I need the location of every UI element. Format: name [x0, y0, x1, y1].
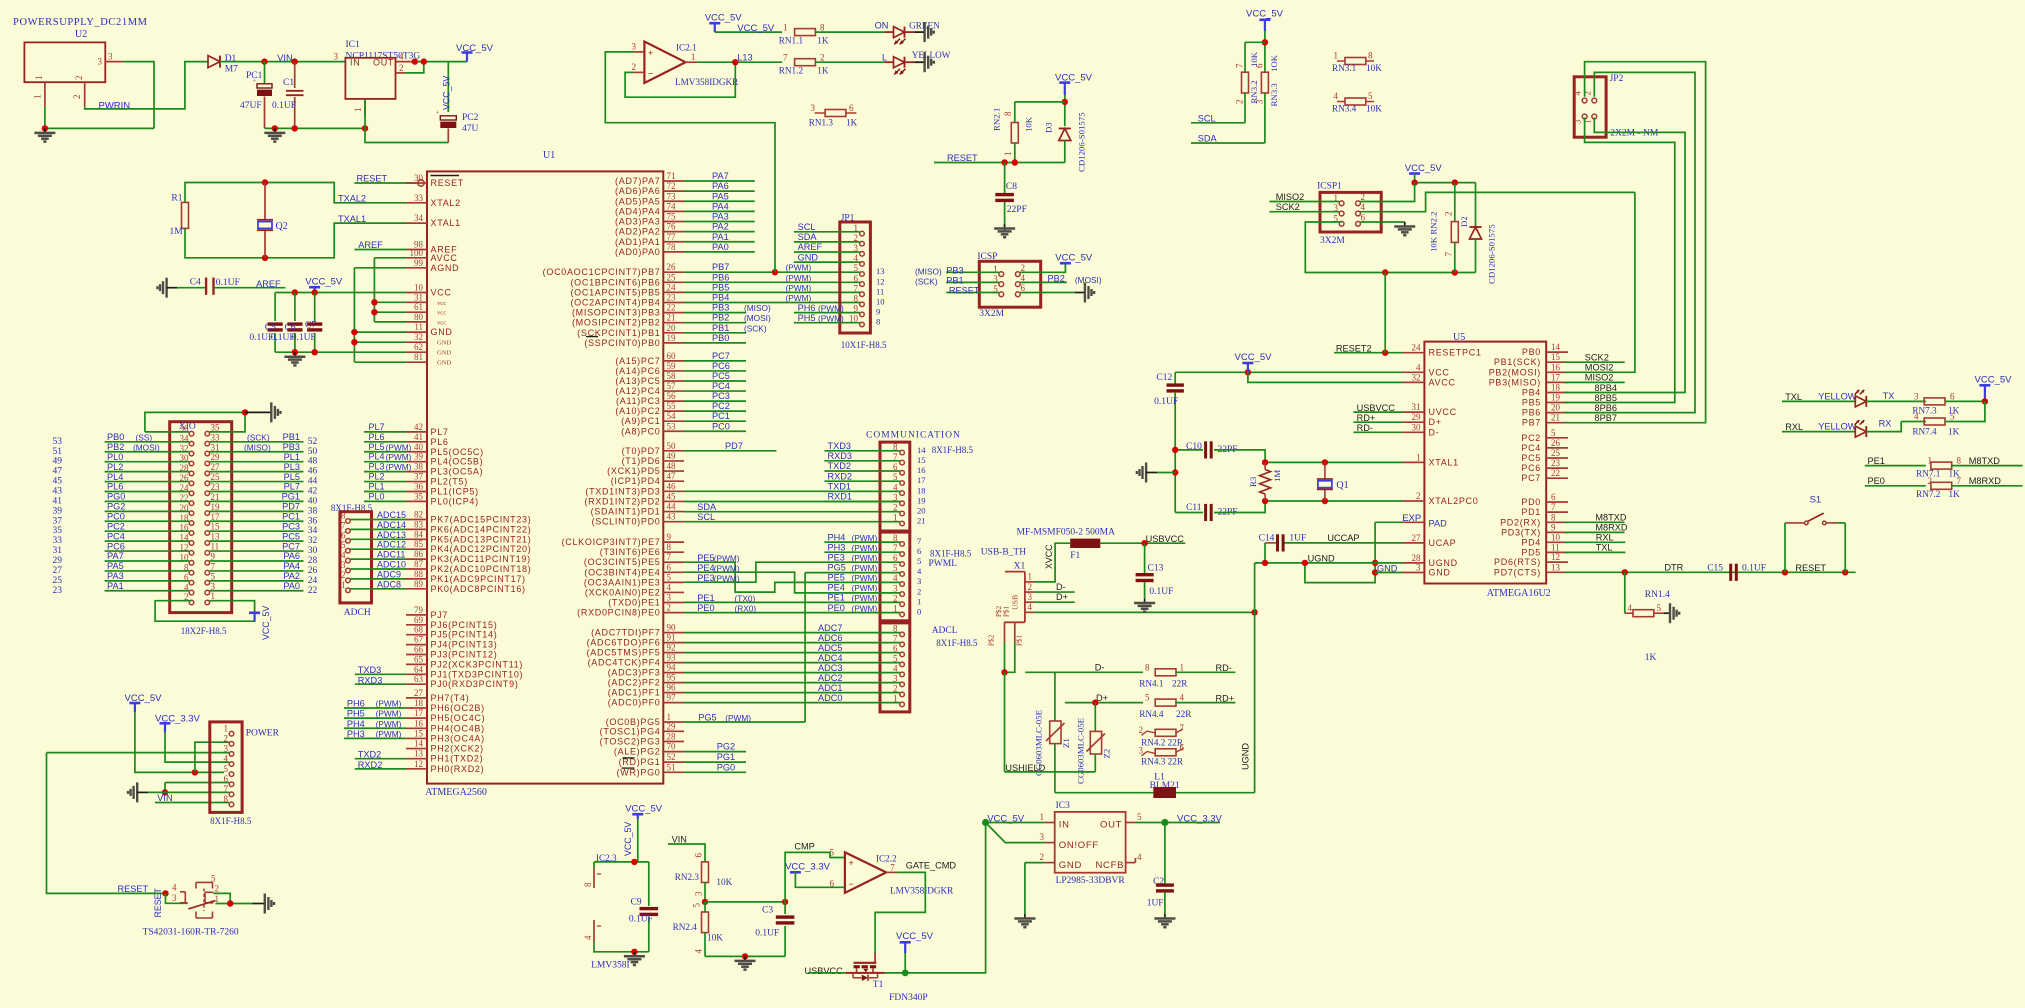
- svg-text:PC5: PC5: [1521, 453, 1541, 463]
- svg-text:UCCAP: UCCAP: [1327, 533, 1359, 543]
- svg-text:VIN: VIN: [672, 835, 687, 845]
- svg-text:RESET: RESET: [431, 178, 465, 188]
- svg-text:(XCK1)PD5: (XCK1)PD5: [607, 466, 660, 476]
- svg-text:7: 7: [917, 536, 922, 546]
- svg-text:UVCC: UVCC: [1429, 407, 1457, 417]
- svg-text:(WR)PG0: (WR)PG0: [617, 767, 661, 777]
- svg-text:(AD3)PA3: (AD3)PA3: [615, 217, 660, 227]
- svg-text:NCFB: NCFB: [1096, 860, 1125, 871]
- svg-text:PA7: PA7: [712, 171, 729, 181]
- svg-text:14: 14: [1551, 342, 1561, 352]
- svg-text:19: 19: [211, 502, 221, 512]
- svg-text:PE0: PE0: [697, 603, 714, 613]
- svg-text:12: 12: [876, 276, 885, 286]
- svg-text:C15: C15: [1707, 564, 1723, 574]
- svg-text:ADC13: ADC13: [377, 530, 406, 540]
- svg-text:(MOSI): (MOSI): [744, 313, 771, 323]
- svg-text:(A14)PC6: (A14)PC6: [615, 366, 660, 376]
- svg-text:OUT: OUT: [1100, 820, 1122, 831]
- svg-text:VCC_5V: VCC_5V: [305, 277, 343, 288]
- svg-text:10K: 10K: [707, 933, 723, 943]
- svg-text:11: 11: [211, 542, 220, 552]
- svg-text:PG5: PG5: [828, 562, 846, 572]
- svg-text:17: 17: [414, 708, 424, 718]
- svg-text:RD+: RD+: [1216, 693, 1235, 703]
- svg-text:13: 13: [1551, 562, 1561, 572]
- svg-text:PC1: PC1: [282, 511, 300, 521]
- svg-text:57: 57: [667, 381, 677, 391]
- svg-text:PJ6(PCINT15): PJ6(PCINT15): [431, 620, 498, 630]
- svg-text:PC2: PC2: [107, 521, 125, 531]
- svg-text:1UF: 1UF: [1147, 899, 1164, 909]
- svg-text:UGND: UGND: [1241, 743, 1251, 770]
- svg-text:5: 5: [893, 563, 898, 573]
- svg-text:PB2: PB2: [1048, 274, 1065, 284]
- svg-text:PG5: PG5: [698, 712, 716, 722]
- svg-text:66: 66: [414, 645, 424, 655]
- svg-text:11: 11: [1551, 542, 1560, 552]
- svg-text:R3: R3: [1248, 476, 1258, 487]
- svg-text:GND: GND: [1377, 564, 1398, 574]
- svg-text:PC3: PC3: [282, 521, 300, 531]
- svg-text:(RXD0PCIN8)PE0: (RXD0PCIN8)PE0: [577, 608, 660, 618]
- svg-text:MISO2: MISO2: [1276, 192, 1305, 202]
- svg-text:PL4: PL4: [369, 452, 385, 462]
- svg-text:23: 23: [53, 586, 63, 596]
- svg-text:10: 10: [1551, 532, 1561, 542]
- svg-text:12: 12: [1551, 552, 1560, 562]
- svg-text:(ADC0)PF0: (ADC0)PF0: [608, 698, 661, 708]
- svg-text:IC3: IC3: [1056, 801, 1071, 811]
- svg-text:D+: D+: [1056, 592, 1068, 602]
- svg-text:35: 35: [211, 422, 221, 432]
- svg-text:PD7(CTS): PD7(CTS): [1494, 567, 1541, 577]
- svg-text:70: 70: [667, 742, 677, 752]
- svg-text:PC1: PC1: [712, 411, 730, 421]
- svg-text:77: 77: [667, 232, 677, 242]
- svg-text:AREF: AREF: [256, 279, 281, 289]
- svg-text:PB6: PB6: [1522, 408, 1541, 418]
- svg-text:3: 3: [1028, 592, 1033, 602]
- svg-text:10K RN2.2: 10K RN2.2: [1429, 211, 1439, 252]
- svg-text:16: 16: [414, 718, 424, 728]
- svg-text:25: 25: [53, 576, 63, 586]
- svg-text:PC7: PC7: [1521, 473, 1541, 483]
- svg-text:XTAL2: XTAL2: [431, 198, 461, 208]
- svg-text:83: 83: [414, 519, 424, 529]
- svg-text:6: 6: [917, 546, 922, 556]
- svg-text:RXD1: RXD1: [828, 492, 853, 502]
- svg-text:C12: C12: [1156, 373, 1172, 383]
- svg-text:34: 34: [308, 526, 318, 536]
- svg-text:1K: 1K: [1948, 427, 1960, 437]
- svg-text:PL3: PL3: [284, 462, 300, 472]
- svg-text:JP2: JP2: [1610, 74, 1624, 84]
- svg-text:35: 35: [53, 526, 63, 536]
- svg-text:1K: 1K: [1949, 489, 1961, 499]
- svg-text:YELLOW: YELLOW: [1818, 391, 1857, 401]
- svg-text:D-: D-: [1056, 582, 1066, 592]
- svg-text:PB1(SCK): PB1(SCK): [1494, 357, 1541, 367]
- svg-text:+: +: [849, 858, 854, 868]
- svg-text:90: 90: [667, 623, 677, 633]
- svg-text:VCC_3.3V: VCC_3.3V: [785, 862, 831, 873]
- svg-text:SCL: SCL: [1198, 114, 1216, 124]
- svg-text:LP2985-33DBVR: LP2985-33DBVR: [1056, 876, 1126, 886]
- svg-text:PA7: PA7: [107, 551, 124, 561]
- svg-text:4: 4: [694, 949, 704, 954]
- svg-text:AVCC: AVCC: [1429, 377, 1456, 387]
- svg-text:YELLOW: YELLOW: [1818, 422, 1857, 432]
- svg-text:RD-: RD-: [1216, 663, 1232, 673]
- svg-text:PB0: PB0: [107, 432, 124, 442]
- svg-text:S1: S1: [1810, 495, 1822, 506]
- svg-text:TXL: TXL: [1785, 392, 1802, 402]
- svg-text:22: 22: [1551, 468, 1560, 478]
- svg-text:XTAL1: XTAL1: [431, 218, 461, 228]
- svg-text:PE1: PE1: [1868, 456, 1885, 466]
- svg-text:2: 2: [224, 734, 229, 744]
- svg-text:24: 24: [1412, 343, 1422, 353]
- svg-text:vcc: vcc: [437, 319, 446, 326]
- svg-text:32: 32: [308, 536, 318, 546]
- svg-text:VCC_3.3V: VCC_3.3V: [1177, 814, 1223, 825]
- svg-text:TX: TX: [1883, 391, 1895, 401]
- svg-text:3: 3: [224, 744, 229, 754]
- svg-text:GND: GND: [437, 350, 452, 357]
- svg-text:PL5(OC5C): PL5(OC5C): [431, 447, 484, 457]
- svg-text:(ADC7TDI)PF7: (ADC7TDI)PF7: [591, 628, 660, 638]
- svg-text:(TOSC1)PG4: (TOSC1)PG4: [600, 726, 661, 736]
- svg-text:(A9)PC1: (A9)PC1: [621, 416, 660, 426]
- svg-text:PC4: PC4: [1521, 443, 1541, 453]
- svg-text:UCAP: UCAP: [1429, 538, 1457, 548]
- svg-text:8: 8: [854, 294, 859, 304]
- svg-text:91: 91: [667, 633, 676, 643]
- svg-text:PC7: PC7: [282, 541, 300, 551]
- svg-text:PA2: PA2: [283, 571, 300, 581]
- svg-text:60: 60: [667, 351, 677, 361]
- svg-text:RXD3: RXD3: [358, 675, 383, 685]
- svg-text:1: 1: [341, 580, 346, 590]
- svg-text:64: 64: [414, 664, 424, 674]
- svg-text:1: 1: [34, 76, 44, 81]
- svg-text:PJ5(PCINT14): PJ5(PCINT14): [431, 630, 498, 640]
- svg-text:+: +: [436, 111, 440, 117]
- svg-text:(AD2)PA2: (AD2)PA2: [615, 227, 660, 237]
- svg-text:85: 85: [414, 539, 424, 549]
- svg-text:17: 17: [211, 512, 221, 522]
- svg-text:17: 17: [917, 475, 926, 485]
- svg-text:18X2F-H8.5: 18X2F-H8.5: [181, 626, 227, 636]
- svg-text:25: 25: [667, 272, 677, 282]
- svg-text:(RX0): (RX0): [735, 604, 757, 614]
- svg-text:vcc: vcc: [437, 310, 446, 317]
- svg-text:2: 2: [1028, 582, 1033, 592]
- svg-text:PJ2(XCK3PCINT11): PJ2(XCK3PCINT11): [431, 659, 524, 669]
- svg-text:52: 52: [667, 752, 676, 762]
- svg-text:C9: C9: [631, 898, 642, 908]
- svg-text:D-: D-: [1095, 663, 1105, 673]
- svg-text:VCC_5V: VCC_5V: [261, 606, 271, 640]
- svg-text:8X1F-H8.5: 8X1F-H8.5: [936, 638, 978, 648]
- svg-text:(ADC3)PF3: (ADC3)PF3: [608, 668, 661, 678]
- svg-text:(MISO): (MISO): [244, 442, 271, 452]
- svg-text:(A8)PC0: (A8)PC0: [621, 426, 660, 436]
- svg-text:(PWM): (PWM): [376, 699, 402, 709]
- svg-text:ADC7: ADC7: [818, 623, 843, 633]
- svg-text:4: 4: [1028, 602, 1033, 612]
- svg-text:RN3.4: RN3.4: [1332, 104, 1357, 114]
- svg-text:1: 1: [893, 513, 898, 523]
- svg-text:D+: D+: [1429, 417, 1442, 427]
- svg-text:1: 1: [33, 95, 43, 100]
- svg-text:41: 41: [414, 432, 423, 442]
- svg-text:2: 2: [1416, 491, 1421, 501]
- svg-text:2: 2: [341, 570, 346, 580]
- svg-text:(PWM): (PWM): [386, 452, 412, 462]
- svg-text:0.1UF: 0.1UF: [755, 929, 779, 939]
- svg-text:7: 7: [1551, 502, 1556, 512]
- svg-text:13: 13: [211, 532, 221, 542]
- svg-text:1: 1: [224, 723, 229, 733]
- svg-text:5: 5: [341, 540, 346, 550]
- svg-text:1UF: 1UF: [1289, 533, 1306, 543]
- svg-text:PL6: PL6: [431, 437, 449, 447]
- svg-text:4: 4: [667, 582, 672, 592]
- svg-text:PL2: PL2: [369, 472, 385, 482]
- svg-text:6: 6: [667, 562, 672, 572]
- svg-text:P$1: P$1: [1016, 634, 1024, 646]
- svg-text:(T3INT6)PE6: (T3INT6)PE6: [600, 547, 661, 557]
- svg-text:PL2(T5): PL2(T5): [431, 477, 468, 487]
- svg-text:PE1: PE1: [828, 593, 845, 603]
- svg-text:75: 75: [667, 212, 677, 222]
- svg-text:PD4: PD4: [1521, 537, 1541, 547]
- svg-text:40: 40: [308, 496, 318, 506]
- svg-text:55: 55: [667, 401, 677, 411]
- svg-text:1M: 1M: [170, 227, 184, 237]
- svg-text:Q1: Q1: [1336, 480, 1348, 491]
- svg-text:PC6: PC6: [712, 361, 730, 371]
- svg-text:62: 62: [414, 342, 423, 352]
- svg-text:4: 4: [172, 883, 177, 893]
- svg-text:PA0: PA0: [283, 581, 300, 591]
- svg-text:4: 4: [1628, 603, 1633, 613]
- svg-text:44: 44: [308, 477, 318, 487]
- svg-text:RN2.1: RN2.1: [992, 108, 1002, 131]
- svg-text:81: 81: [414, 352, 423, 362]
- svg-text:6: 6: [1950, 391, 1955, 401]
- svg-text:3: 3: [632, 42, 637, 52]
- svg-text:1: 1: [1180, 662, 1185, 672]
- svg-text:45: 45: [667, 491, 677, 501]
- svg-text:Z2: Z2: [1102, 749, 1112, 759]
- svg-text:−: −: [648, 69, 653, 79]
- svg-text:ICSP1: ICSP1: [1317, 182, 1342, 192]
- svg-text:PE0: PE0: [828, 603, 845, 613]
- svg-text:10X1F-H8.5: 10X1F-H8.5: [841, 340, 887, 350]
- svg-text:LMV358IDGKR: LMV358IDGKR: [890, 886, 954, 896]
- svg-text:28: 28: [1412, 553, 1422, 563]
- svg-text:C14: C14: [1259, 534, 1275, 544]
- svg-text:(A15)PC7: (A15)PC7: [615, 356, 660, 366]
- svg-text:8: 8: [341, 511, 346, 521]
- svg-text:(AD6)PA6: (AD6)PA6: [615, 186, 660, 196]
- svg-text:(ICP1)PD4: (ICP1)PD4: [611, 476, 661, 486]
- svg-text:U2: U2: [75, 29, 87, 40]
- svg-text:GATE_CMD: GATE_CMD: [906, 861, 957, 871]
- svg-text:PD6(RTS): PD6(RTS): [1494, 557, 1541, 567]
- svg-text:(SCK): (SCK): [744, 323, 767, 333]
- svg-text:4: 4: [1361, 202, 1366, 212]
- svg-text:L13: L13: [737, 53, 752, 63]
- svg-text:PWRIN: PWRIN: [99, 101, 131, 112]
- svg-text:10K: 10K: [1366, 63, 1382, 73]
- svg-text:15: 15: [211, 522, 221, 532]
- svg-text:(SDAINT1)PD1: (SDAINT1)PD1: [591, 507, 661, 517]
- svg-text:0.1UF: 0.1UF: [1154, 397, 1178, 407]
- svg-text:M8TXD: M8TXD: [1969, 456, 2001, 466]
- svg-text:29: 29: [211, 452, 221, 462]
- svg-text:(PWM): (PWM): [386, 462, 412, 472]
- svg-text:3X2M: 3X2M: [979, 309, 1004, 319]
- svg-text:82: 82: [414, 510, 423, 520]
- svg-text:R1: R1: [171, 194, 182, 204]
- svg-text:(MISO): (MISO): [915, 266, 942, 276]
- svg-text:PB7: PB7: [1522, 418, 1541, 428]
- svg-text:RN4.4: RN4.4: [1139, 709, 1164, 719]
- svg-text:3: 3: [811, 103, 816, 113]
- svg-text:61: 61: [414, 302, 423, 312]
- svg-text:ADC5: ADC5: [818, 643, 843, 653]
- svg-text:33: 33: [414, 193, 424, 203]
- svg-text:5: 5: [830, 847, 835, 857]
- svg-text:PL6: PL6: [107, 482, 123, 492]
- svg-text:RN3.1: RN3.1: [1332, 63, 1357, 73]
- svg-text:PE5: PE5: [828, 572, 845, 582]
- svg-text:POWERSUPPLY_DC21MM: POWERSUPPLY_DC21MM: [13, 17, 148, 28]
- svg-text:96: 96: [667, 683, 677, 693]
- svg-text:(T0)PD7: (T0)PD7: [622, 446, 661, 456]
- svg-text:4: 4: [917, 566, 922, 576]
- svg-text:PL1: PL1: [369, 481, 385, 491]
- svg-text:30: 30: [308, 546, 318, 556]
- svg-text:TXD3: TXD3: [828, 441, 852, 451]
- svg-text:PA5: PA5: [107, 561, 124, 571]
- svg-text:ADC1: ADC1: [818, 683, 843, 693]
- svg-text:1K: 1K: [1645, 653, 1657, 663]
- svg-text:ADC4: ADC4: [818, 653, 843, 663]
- svg-text:2: 2: [667, 603, 672, 613]
- svg-text:7: 7: [890, 863, 895, 873]
- svg-text:(A11)PC3: (A11)PC3: [616, 396, 660, 406]
- svg-text:ON!OFF: ON!OFF: [1059, 840, 1099, 851]
- svg-text:(AD0)PA0: (AD0)PA0: [615, 247, 660, 257]
- svg-text:PH6: PH6: [347, 699, 365, 709]
- svg-text:SCK2: SCK2: [1276, 202, 1300, 212]
- svg-text:PH6: PH6: [798, 303, 816, 313]
- svg-text:47: 47: [53, 467, 63, 477]
- svg-text:37: 37: [53, 516, 63, 526]
- svg-text:COMMUNICATION: COMMUNICATION: [866, 431, 961, 441]
- svg-text:(PWM): (PWM): [786, 263, 812, 273]
- svg-text:PA0: PA0: [712, 242, 729, 252]
- svg-text:PL4(OC5B): PL4(OC5B): [431, 457, 484, 467]
- svg-text:13: 13: [876, 266, 885, 276]
- svg-text:32: 32: [414, 332, 423, 342]
- svg-text:U1: U1: [543, 150, 555, 161]
- svg-text:VIN: VIN: [157, 793, 172, 803]
- svg-text:88: 88: [414, 569, 424, 579]
- svg-text:D2: D2: [1459, 216, 1469, 227]
- svg-text:9: 9: [1551, 522, 1556, 532]
- svg-text:15: 15: [917, 455, 926, 465]
- svg-text:PH5: PH5: [798, 313, 816, 323]
- svg-text:T1: T1: [873, 980, 884, 990]
- svg-text:(CLKOICP3INT7)PE7: (CLKOICP3INT7)PE7: [562, 537, 661, 547]
- svg-text:48: 48: [308, 457, 318, 467]
- svg-text:OUT: OUT: [373, 58, 394, 68]
- svg-text:PK2(ADC10PCINT18): PK2(ADC10PCINT18): [431, 564, 532, 574]
- svg-text:0.1UF: 0.1UF: [272, 101, 296, 111]
- svg-text:PB7: PB7: [712, 262, 729, 272]
- svg-text:(SSPCINT0)PB0: (SSPCINT0)PB0: [584, 338, 660, 348]
- svg-text:(OC2APCINT4)PB4: (OC2APCINT4)PB4: [570, 298, 660, 308]
- svg-text:47U: 47U: [462, 124, 479, 134]
- svg-text:1: 1: [783, 23, 788, 33]
- svg-text:MISO2: MISO2: [1585, 373, 1614, 383]
- svg-text:(TXD1INT3)PD3: (TXD1INT3)PD3: [585, 486, 660, 496]
- svg-text:C4: C4: [190, 277, 201, 287]
- svg-text:ADC14: ADC14: [377, 520, 406, 530]
- svg-text:38: 38: [414, 462, 424, 472]
- svg-text:(TXD0)PE1: (TXD0)PE1: [608, 598, 660, 608]
- svg-text:RN4.3 22R: RN4.3 22R: [1141, 757, 1184, 767]
- svg-text:PC2: PC2: [712, 401, 730, 411]
- svg-text:PD5: PD5: [1521, 547, 1541, 557]
- svg-text:3: 3: [98, 57, 103, 67]
- svg-text:26: 26: [1551, 438, 1561, 448]
- svg-text:4: 4: [1573, 91, 1583, 96]
- svg-text:63: 63: [414, 674, 424, 684]
- svg-text:D3: D3: [1044, 122, 1054, 133]
- svg-text:9: 9: [876, 307, 880, 317]
- svg-text:5: 5: [1551, 428, 1556, 438]
- svg-text:29: 29: [1412, 412, 1422, 422]
- svg-text:C11: C11: [1186, 503, 1202, 513]
- svg-text:2: 2: [893, 503, 898, 513]
- svg-text:ADC3: ADC3: [818, 663, 843, 673]
- svg-text:PC5: PC5: [712, 371, 730, 381]
- svg-text:PC4: PC4: [107, 531, 125, 541]
- svg-text:RXD2: RXD2: [828, 471, 853, 481]
- svg-text:PB4: PB4: [1522, 388, 1541, 398]
- svg-text:34: 34: [414, 213, 424, 223]
- svg-text:PB1: PB1: [283, 432, 300, 442]
- svg-text:3: 3: [1573, 119, 1583, 124]
- svg-text:PD2(RX): PD2(RX): [1500, 517, 1541, 527]
- svg-text:USBVCC: USBVCC: [1146, 534, 1185, 544]
- svg-text:8X1F-H8.5: 8X1F-H8.5: [210, 816, 252, 826]
- svg-text:PB4: PB4: [712, 293, 729, 303]
- svg-text:31: 31: [1412, 402, 1421, 412]
- svg-text:21: 21: [211, 492, 220, 502]
- svg-text:72: 72: [667, 181, 676, 191]
- svg-text:18: 18: [1551, 383, 1561, 393]
- svg-text:6: 6: [1021, 283, 1026, 293]
- svg-text:PK6(ADC14PCINT22): PK6(ADC14PCINT22): [431, 524, 532, 534]
